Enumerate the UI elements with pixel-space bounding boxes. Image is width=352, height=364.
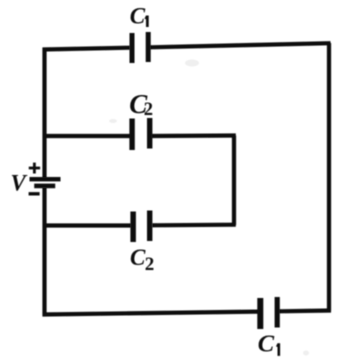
wire: left side, above battery <box>42 48 46 178</box>
wire: inner bottom, right of C2 <box>152 223 236 228</box>
wire: bottom side, right of C1 <box>279 308 331 313</box>
svg-text:V: V <box>11 171 28 196</box>
wire: inner bottom, left of C2 <box>43 223 132 227</box>
wire: right side of outer loop <box>327 43 331 311</box>
capacitor C2 (top) plates <box>129 119 134 151</box>
capacitor C1 (bottom) plates <box>257 298 263 329</box>
svg-text:2: 2 <box>144 100 153 120</box>
wire: inner top, left of C2 <box>45 134 131 138</box>
capacitor C1 (top) plates <box>130 33 135 63</box>
svg-text:C: C <box>130 4 146 29</box>
battery plus sign <box>29 167 40 170</box>
svg-text:2: 2 <box>145 254 155 275</box>
wire: inner right vertical <box>232 136 236 226</box>
battery minus sign <box>29 192 40 195</box>
wire: bottom side, left of C1 <box>43 312 259 315</box>
battery V: short bottom plate (-) <box>34 184 55 189</box>
wire: inner top, right of C2 <box>152 133 236 138</box>
svg-text:C: C <box>258 331 275 358</box>
svg-text:C: C <box>130 245 146 270</box>
capacitor C2 (bottom) plates <box>130 212 136 243</box>
battery V: long top plate (+) <box>30 177 61 181</box>
wire: left side, below battery <box>42 188 46 317</box>
wire: top side, right of C1 <box>150 43 331 47</box>
wire: top side, left of C1 <box>43 48 131 50</box>
